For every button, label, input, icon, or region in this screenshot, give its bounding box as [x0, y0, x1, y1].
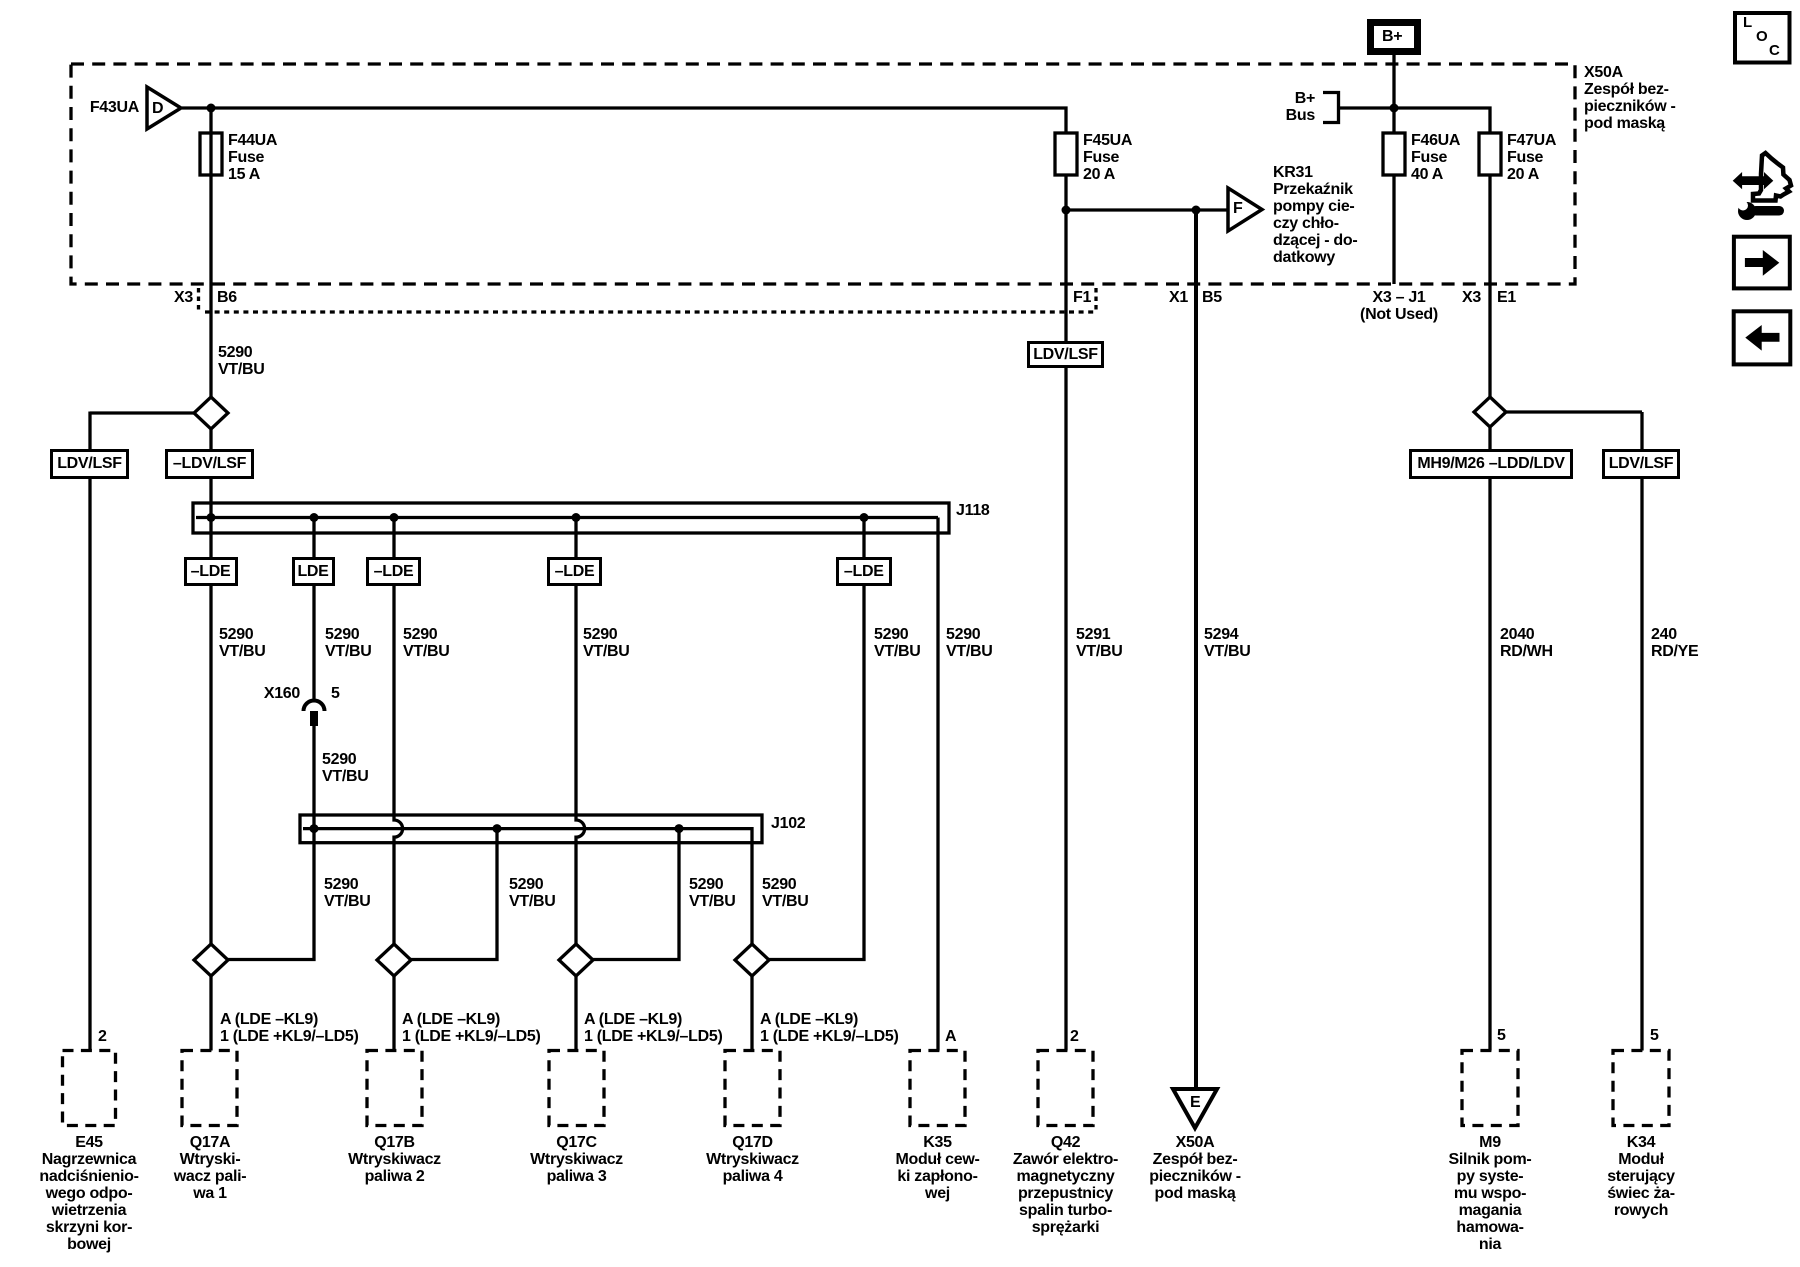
connector bar J118 [193, 503, 949, 533]
label fuse F44UA [228, 132, 277, 183]
wire: left branch to LDV/LSF and E45 [90, 412, 196, 1051]
component box Q42 dashed [1038, 1051, 1093, 1126]
icon LOC box [1735, 13, 1790, 63]
splice diamond on F44UA wire [194, 397, 228, 429]
component label Q17A [174, 1134, 247, 1202]
net box LDV/LSF left [50, 449, 129, 479]
component label E45 [39, 1134, 138, 1253]
letter F in relay arrow [1233, 200, 1242, 217]
pin label 2 of Q42 [1070, 1028, 1079, 1045]
label X160 [264, 685, 300, 702]
label B+ [1382, 28, 1402, 45]
pin label A of K35 [945, 1028, 956, 1045]
icon back arrow box [1734, 311, 1791, 364]
letter D in connector arrow [152, 100, 163, 117]
label KR31 relay [1273, 164, 1357, 266]
pin labels of Q17B [402, 1011, 541, 1045]
component label Q42 [1013, 1134, 1118, 1236]
label fuse F46UA [1411, 132, 1460, 183]
connector bar J102 [300, 815, 762, 843]
junction at X1-B5 tap [1192, 206, 1201, 215]
wire: main feed from F43UA triangle to F45UA [182, 108, 1066, 133]
wire: J118 to -LDE and through J102 to injector-3 diamond [576, 518, 585, 946]
junctions on J118 bus [207, 513, 869, 522]
wire: F47UA down through diamond and MH9/M26 box to M9 [1488, 175, 1491, 1051]
wire label 5291 VT/BU [1076, 626, 1123, 660]
wire: F46UA to X3-J1 (not used) [1392, 175, 1395, 284]
splice diamond injector 3 [559, 944, 593, 976]
wire: B+ Bus bracket to F47UA [1339, 108, 1491, 133]
net box -LDE 1 [184, 557, 238, 586]
component label M9 [1449, 1134, 1532, 1253]
pin label 5 of K34 [1650, 1027, 1659, 1044]
letters in LOC icon [1743, 14, 1752, 31]
wire: J118 to -LDE and through J102 to injector-2 diamond [394, 518, 403, 946]
splice diamond injector 4 [735, 944, 769, 976]
label J102 [771, 815, 805, 832]
pin label B5 [1202, 289, 1222, 306]
junction on main feed at F44UA [207, 104, 216, 113]
component label Q17B [348, 1134, 441, 1185]
icon data-with-tool [1733, 153, 1791, 220]
component box K34 dashed [1613, 1051, 1669, 1126]
fuse F46UA symbol [1383, 133, 1405, 175]
component label X50A ground [1149, 1134, 1241, 1202]
component box E45 dashed [63, 1051, 116, 1126]
letter E in ground triangle [1190, 1094, 1200, 1111]
net box LDE 2 [292, 557, 335, 586]
wire: injector diamonds down to Q17A..Q17D [394, 975, 752, 1051]
wire label 5290 VT/BU below B6 [218, 344, 265, 378]
pin label 5 of M9 [1497, 1027, 1506, 1044]
ground triangle E (X50A) [1173, 1089, 1217, 1128]
component box K35 dashed [910, 1051, 965, 1126]
label B+ Bus [1286, 90, 1315, 124]
wire label 240 RD/YE [1651, 626, 1698, 660]
connector arrow D (F43UA) [147, 87, 181, 129]
net box -LDV/LSF [165, 449, 254, 479]
wire: B+ feed down to F46UA [1392, 55, 1395, 133]
B+ Bus bracket [1323, 93, 1339, 123]
B+ power symbol box [1371, 23, 1418, 52]
pin label 2 of E45 [98, 1028, 107, 1045]
wire: J102 tap to injector-3 diamond link [592, 829, 679, 960]
pin label X3 - J1 (Not Used) [1360, 289, 1438, 323]
splice diamond injector 2 [377, 944, 411, 976]
net box LDV/LSF at F1 [1027, 341, 1104, 368]
component label Q17D [706, 1134, 799, 1185]
wire: right branch to LDV/LSF and K34 [1505, 412, 1642, 1051]
wire: F44UA branch down through diamond, -LDV/LSF, J118, -LDE to injector diamond [209, 108, 212, 1051]
net box -LDE 3 [366, 557, 421, 586]
wire label 5290 VT/BU below X160 [322, 751, 369, 785]
pin label X3 right [1462, 289, 1481, 306]
wire: X1-B5 heavy feed to X50A ground triangle [1194, 210, 1198, 1090]
pin label X3 left [174, 289, 193, 306]
wire label 5294 VT/BU [1204, 626, 1251, 660]
pin label F1 [1073, 289, 1091, 306]
pin labels of Q17D [760, 1011, 899, 1045]
component label Q17C [530, 1134, 623, 1185]
label F43UA [90, 99, 139, 116]
component box M9 dashed [1462, 1051, 1518, 1126]
splice diamond injector 1 [194, 944, 228, 976]
pin 5 of X160 [331, 685, 340, 702]
wire: J118 to -LDE and down to link of injector-4 diamond [768, 518, 864, 960]
pin label X1 [1169, 289, 1188, 306]
wire: J118 to LDE box, X160, J102 and link to injector-1 diamond [227, 518, 314, 960]
component box Q17B dashed [367, 1051, 422, 1126]
net box -LDE 4 [547, 557, 602, 586]
net box MH9/M26 -LDD/LDV [1409, 449, 1573, 479]
junction at B+ bus [1390, 104, 1399, 113]
label J118 [956, 502, 990, 519]
label X50A fuse block [1584, 64, 1676, 132]
label fuse F47UA [1507, 132, 1556, 183]
net box LDV/LSF right [1602, 449, 1680, 479]
wire labels row under J118 [219, 626, 266, 660]
fuse F47UA symbol [1479, 133, 1501, 175]
component label K34 [1607, 1134, 1675, 1219]
inline connector X160 symbol [304, 701, 325, 727]
junction at F45UA / relay feed [1062, 206, 1071, 215]
wire: relay feed KR31 [1066, 208, 1228, 211]
fuse block X50A dashed outline [71, 64, 1575, 284]
wire: F45UA down through F1 and LDV/LSF to Q42 [1064, 175, 1067, 1051]
pin label E1 [1497, 289, 1516, 306]
fuse F45UA symbol [1055, 133, 1077, 175]
bus J102 with crossover hops and turn down to injector-4 diamond [303, 829, 752, 945]
pin label B6 [217, 289, 237, 306]
component label K35 [895, 1134, 979, 1202]
icon forward arrow box [1734, 237, 1790, 289]
bus J118 with turn down to K35 [196, 518, 938, 1051]
fuse F44UA symbol [200, 133, 222, 175]
connector arrow F (KR31 relay) [1228, 188, 1262, 231]
component box Q17D dashed [725, 1051, 780, 1126]
junctions on J102 bus [310, 824, 684, 833]
wire labels row under J102 [324, 876, 371, 910]
splice diamond on F47UA wire [1474, 397, 1506, 427]
wire label 2040 RD/WH [1500, 626, 1553, 660]
connector strip dotted line X3/B6 to F1 [199, 288, 1097, 312]
pin labels of Q17A [220, 1011, 359, 1045]
wire: J102 tap to injector-2 diamond link [410, 829, 497, 960]
component box Q17A dashed [182, 1051, 237, 1126]
net box -LDE 5 [836, 557, 892, 586]
component box Q17C dashed [549, 1051, 604, 1126]
label fuse F45UA [1083, 132, 1132, 183]
pin labels of Q17C [584, 1011, 723, 1045]
